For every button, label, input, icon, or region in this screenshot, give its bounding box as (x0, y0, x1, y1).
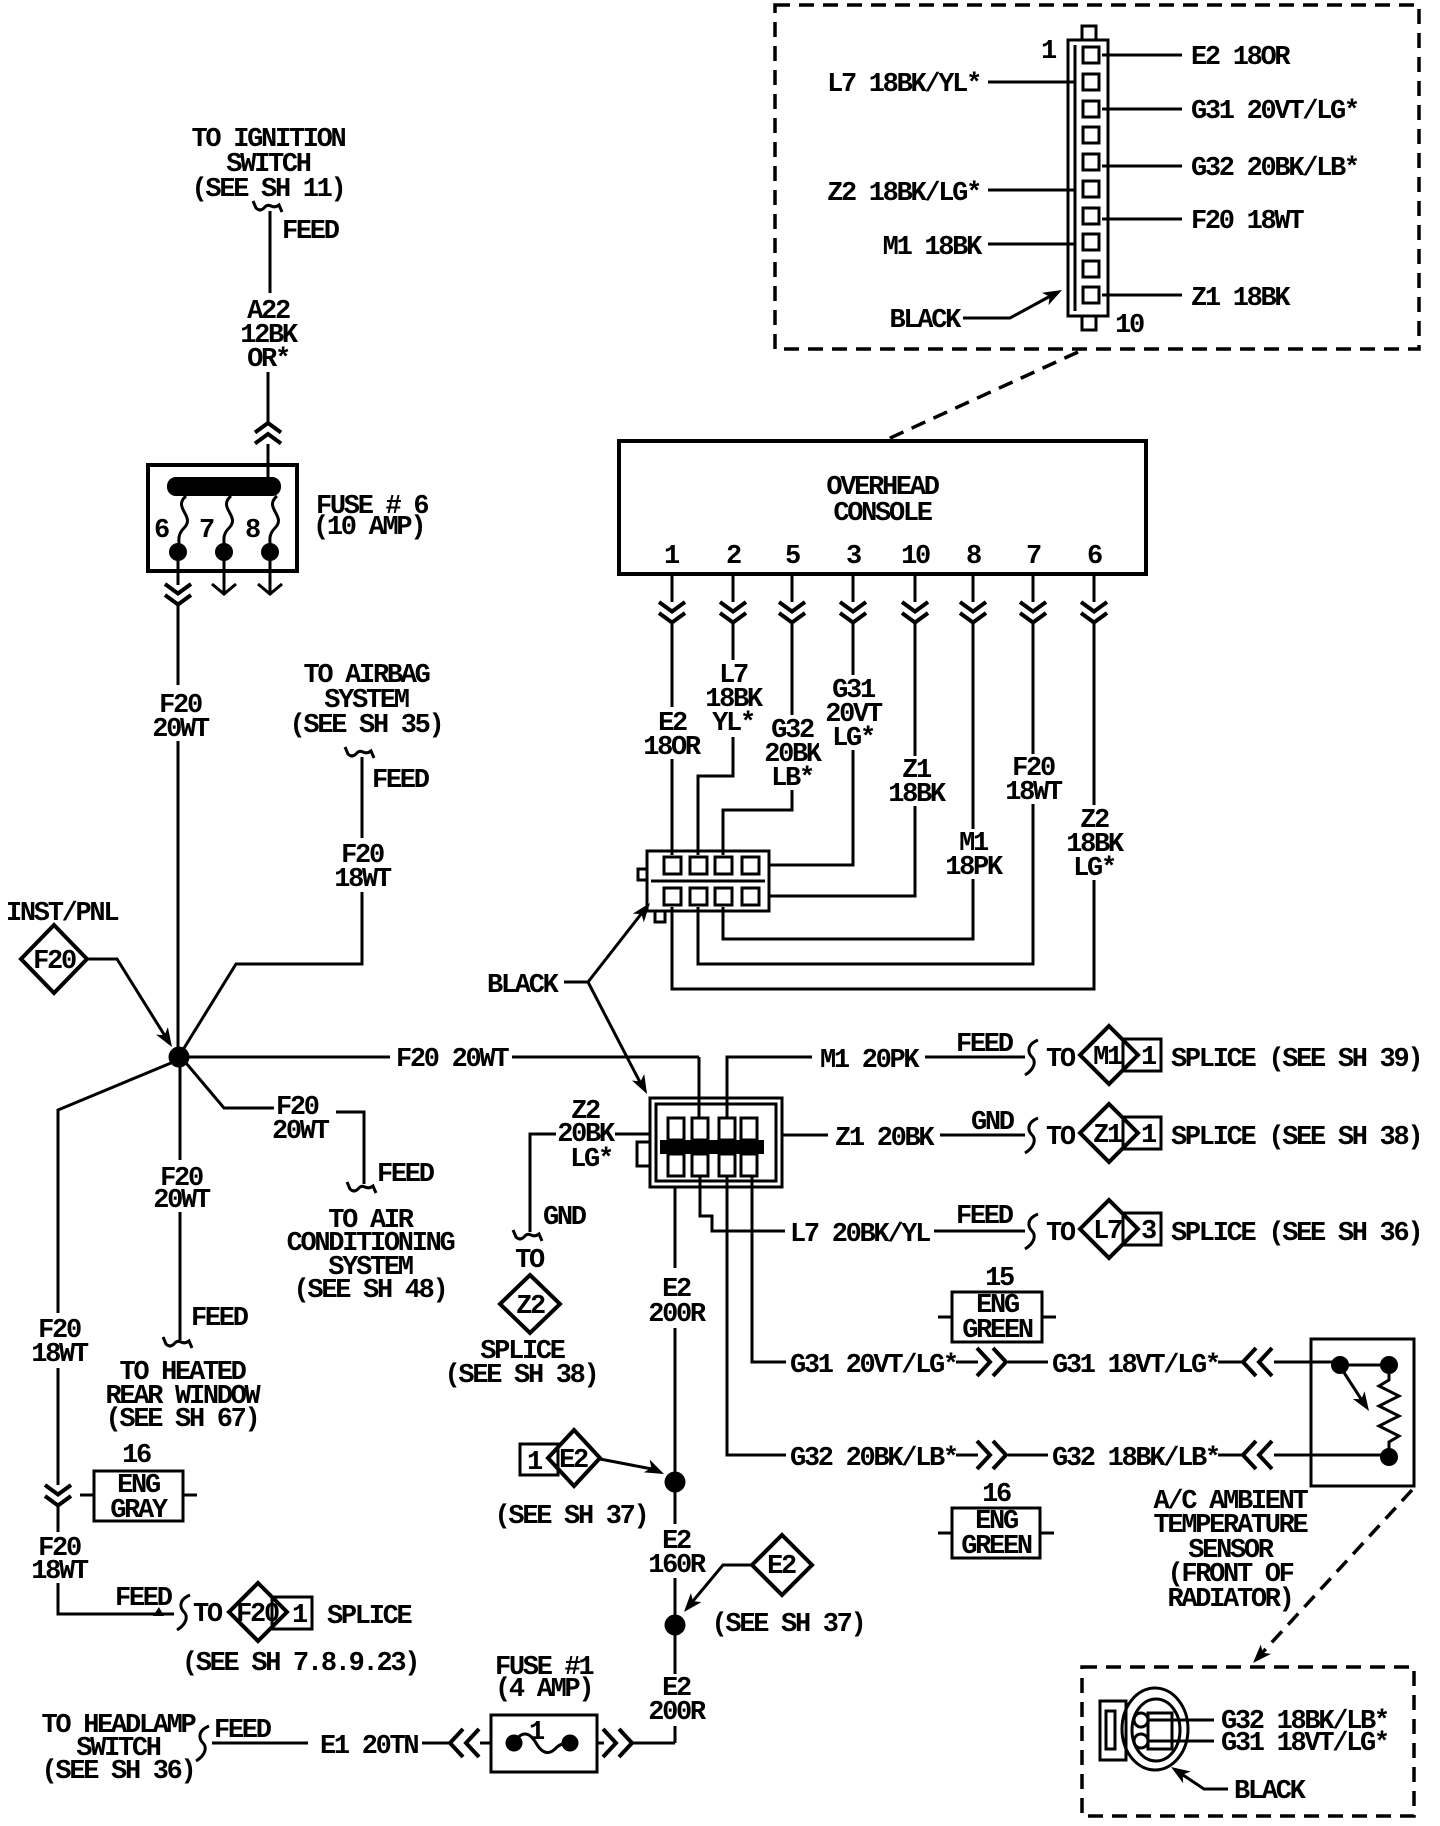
svg-text:BLACK: BLACK (889, 306, 962, 336)
wire lead Z2 18BK/LG* pin6 (988, 189, 1074, 192)
wire F20 into connector C2 pin2 (698, 1057, 701, 1118)
svg-text:TO: TO (1046, 1219, 1076, 1249)
svg-text:18PK: 18PK (945, 853, 1004, 883)
sensor connector tab slot (1106, 1711, 1115, 1749)
svg-text:(SEE SH 36): (SEE SH 36) (42, 1757, 195, 1787)
svg-text:F20 18WT: F20 18WT (1191, 207, 1304, 237)
svg-text:FEED: FEED (115, 1584, 173, 1614)
svg-text:E1 20TN: E1 20TN (320, 1732, 418, 1762)
svg-text:18WT: 18WT (31, 1340, 89, 1370)
svg-text:RADIATOR): RADIATOR) (1167, 1585, 1292, 1615)
svg-text:TO: TO (1046, 1045, 1076, 1075)
wire Z2 into connector C2 left (615, 1133, 650, 1136)
wire value label Z1 18BK (884, 756, 948, 806)
junction node dot (169, 1047, 190, 1068)
wire pointer from BLACK to both connectors (564, 909, 645, 1086)
svg-text:LG*: LG* (1073, 854, 1115, 884)
svg-text:FEED: FEED (191, 1304, 249, 1334)
svg-text:8: 8 (245, 516, 260, 546)
sensor connector left tab (1100, 1701, 1126, 1760)
wire M1 18PK from pin 8 (723, 574, 973, 939)
wire lead Z1 18BK pin10 (1102, 294, 1182, 297)
A/C ambient temperature sensor box (1311, 1339, 1414, 1486)
svg-text:Z1: Z1 (1093, 1121, 1123, 1151)
svg-text:G32 18BK/LB*: G32 18BK/LB* (1052, 1444, 1219, 1474)
wire F20 18WT airbag branch (181, 757, 362, 1053)
arrowhead to connector C1 (633, 899, 656, 923)
dashed leader from sensor to detail box (1262, 1490, 1412, 1653)
svg-text:F20: F20 (33, 947, 76, 977)
sensor connector outer ellipse (1122, 1688, 1188, 1770)
svg-text:18BK: 18BK (888, 780, 947, 810)
splice flag Z1 rect (1123, 1117, 1161, 1149)
connector chevrons right G31 (977, 1348, 1006, 1376)
wire lead L7 18BK/YL* pin2 (988, 81, 1074, 84)
connector chevrons left at fuse 1 input (450, 1729, 479, 1757)
connector chevrons on console wires (659, 602, 685, 623)
svg-text:Z1 20BK: Z1 20BK (835, 1124, 935, 1154)
svg-text:SPLICE (SEE SH 39): SPLICE (SEE SH 39) (1171, 1045, 1421, 1075)
connector C1 detail body (1068, 40, 1108, 316)
wire straight down from junction (179, 1067, 182, 1340)
wire from fuse pin 6 down (177, 561, 180, 1052)
connector C1 bottom pins (664, 888, 681, 905)
svg-text:G32 20BK/LB*: G32 20BK/LB* (790, 1444, 957, 1474)
svg-text:1: 1 (527, 1448, 543, 1478)
svg-text:LG*: LG* (570, 1145, 612, 1175)
splice symbol F20 diamond (229, 1583, 287, 1641)
wire value label Z2 18BK LG* (1060, 805, 1128, 880)
connector chevrons right at fuse 1 output (597, 1742, 604, 1745)
svg-text:(SEE SH 37): (SEE SH 37) (495, 1502, 648, 1532)
svg-text:TO: TO (515, 1246, 545, 1276)
svg-text:(SEE SH 11): (SEE SH 11) (192, 175, 345, 205)
connector C1 detail pins (1083, 47, 1099, 63)
svg-text:GREEN: GREEN (962, 1316, 1033, 1346)
wire stubs on ENG GRAY box (80, 1494, 197, 1497)
svg-text:FEED: FEED (956, 1202, 1014, 1232)
connector C2 center bar (660, 1140, 764, 1154)
svg-text:16: 16 (122, 1441, 151, 1471)
connector chevrons right G32 (977, 1441, 1006, 1469)
connector C2 inner outline (656, 1104, 776, 1181)
svg-text:10: 10 (1115, 311, 1144, 341)
svg-text:FEED: FEED (377, 1160, 435, 1190)
connector C1 detail bottom tab (1082, 316, 1096, 330)
wire end squiggle heated rear window (163, 1337, 192, 1348)
connector in-line chevrons on left branch (45, 1485, 71, 1506)
wire A22 from ignition switch to fuse 6 (269, 211, 272, 293)
svg-text:G31 20VT/LG*: G31 20VT/LG* (790, 1351, 957, 1381)
wire G32 row (727, 1176, 786, 1455)
wire Z1 20BK row (782, 1134, 828, 1137)
arrowhead to connector C2 (632, 1074, 653, 1097)
wire breakout squiggle at ignition feed (253, 201, 282, 212)
wire Z1 18BK from pin 10 (770, 574, 915, 896)
splice symbol Z1 diamond (1080, 1104, 1138, 1162)
svg-text:6: 6 (1087, 542, 1102, 572)
bracket headlamp (196, 1726, 209, 1761)
fuse F6 bus bar (167, 477, 281, 496)
svg-text:BLACK: BLACK (1234, 1777, 1307, 1807)
detail view dashed box (sensor connector) (1082, 1667, 1414, 1816)
wire G31 20VT LG* from pin 3 (770, 574, 853, 865)
svg-text:M1 20PK: M1 20PK (820, 1046, 920, 1076)
node TO F20 splice (153, 1607, 164, 1616)
svg-text:200R: 200R (648, 1300, 707, 1330)
svg-text:(SEE SH 48): (SEE SH 48) (294, 1276, 447, 1306)
svg-text:TO: TO (193, 1600, 223, 1630)
svg-text:1: 1 (292, 1601, 308, 1631)
terminal dot pin 8 (261, 543, 279, 561)
svg-text:GND: GND (971, 1108, 1015, 1138)
svg-text:7: 7 (199, 516, 214, 546)
fuse F1 terminal dots (506, 1735, 523, 1752)
connector C1 middle line (651, 880, 765, 883)
wire lead G31 20VT/LG* pin3 (1102, 108, 1182, 111)
svg-text:10: 10 (901, 542, 930, 572)
connector C1 detail top tab (1082, 26, 1096, 40)
bracket F20 splice (177, 1595, 190, 1630)
terminal dot pin 6 (169, 543, 187, 561)
wire lead E2 18OR pin1 (1102, 54, 1182, 57)
sensor connector pin G31 (1134, 1734, 1148, 1748)
connector C1 detail inner edge (1074, 45, 1077, 311)
wire value label E2 160R (644, 1524, 708, 1578)
thermistor arrow (1343, 1371, 1363, 1402)
svg-text:BLACK: BLACK (487, 971, 560, 1001)
splice symbol M1 diamond (1080, 1026, 1138, 1084)
splice symbol E2 diamond (lower) (752, 1535, 812, 1595)
arrowhead on INST/PNL wire (156, 1027, 178, 1051)
svg-text:E2: E2 (559, 1446, 588, 1476)
sensor terminal dot top-left (1331, 1356, 1349, 1374)
connector C2 top pins (668, 1118, 684, 1140)
svg-text:FEED: FEED (956, 1030, 1014, 1060)
detail view dashed box (console connector) (775, 5, 1419, 349)
wire lead G32 18BK/LB* (1148, 1719, 1214, 1722)
wire value label G31 20VT LG* (819, 675, 887, 750)
wire E2 18OR from pin 1 (671, 574, 674, 855)
svg-text:GND: GND (543, 1203, 587, 1233)
splice node dot E2 upper (665, 1472, 686, 1493)
svg-text:GREEN: GREEN (961, 1532, 1032, 1562)
sensor connector pin cavity (1148, 1713, 1172, 1749)
svg-text:M1: M1 (1093, 1043, 1123, 1073)
wire label F20 20WT on horizontal run (390, 1042, 512, 1072)
svg-text:GRAY: GRAY (110, 1496, 169, 1526)
svg-text:LG*: LG* (832, 724, 874, 754)
fuse element 8 (270, 496, 279, 548)
svg-text:15: 15 (985, 1264, 1014, 1294)
wire lead M1 18BK pin8 (988, 243, 1074, 246)
splice flag L7 rect (1123, 1213, 1161, 1245)
sensor connector pin G32 (1134, 1713, 1148, 1727)
wire value label G32 20BK LB* (758, 715, 826, 790)
wire inside sensor from G31 dot (1311, 1365, 1389, 1455)
svg-text:CONSOLE: CONSOLE (833, 499, 932, 529)
svg-text:FEED: FEED (372, 766, 430, 796)
wire value label E2 200R (upper) (644, 1268, 708, 1328)
svg-text:G31 18VT/LG*: G31 18VT/LG* (1221, 1729, 1388, 1759)
svg-text:5: 5 (785, 542, 800, 572)
svg-text:3: 3 (846, 542, 861, 572)
connector C2 bottom pins (668, 1154, 684, 1176)
svg-text:8: 8 (966, 542, 981, 572)
svg-text:Z1 18BK: Z1 18BK (1191, 284, 1291, 314)
wire F20 18WT from pin 7 (698, 574, 1033, 964)
svg-text:2: 2 (726, 542, 741, 572)
svg-text:20WT: 20WT (153, 1186, 211, 1216)
svg-text:7: 7 (1026, 542, 1041, 572)
svg-text:TO: TO (1046, 1123, 1076, 1153)
fuse F6 box (148, 465, 297, 571)
wire F20 20WT to the right of junction (189, 1056, 699, 1059)
svg-text:18WT: 18WT (31, 1557, 89, 1587)
bracket L7 (1025, 1214, 1038, 1249)
svg-text:Z2: Z2 (516, 1292, 545, 1322)
wire L7 18BK YL* from pin 2 (698, 574, 733, 855)
svg-text:E2 18OR: E2 18OR (1191, 43, 1291, 73)
sensor terminal dot top-right (1380, 1356, 1398, 1374)
wire A22 lower segment (267, 372, 270, 479)
svg-text:(SEE SH 38): (SEE SH 38) (445, 1361, 598, 1391)
wire E1 20TN (212, 1742, 308, 1745)
wire pointer from E2 flag to dot (600, 1459, 652, 1469)
svg-text:L7 20BK/YL: L7 20BK/YL (790, 1220, 930, 1250)
splice symbol Z2 diamond (500, 1275, 560, 1333)
splice symbol E2 diamond (upper) (548, 1430, 600, 1486)
wire E2 vertical chain (674, 1187, 677, 1743)
wire value label L7 18BK YL* (700, 660, 766, 737)
wire from INST/PNL diamond to junction (87, 959, 170, 1044)
wire branch down-left F20 18WT (58, 1063, 174, 1614)
wire value label F20 18WT (1001, 754, 1065, 804)
svg-text:18OR: 18OR (643, 733, 702, 763)
connector C1 top pins (664, 857, 681, 874)
wire G32 20BK LB* from pin 5 (723, 574, 792, 855)
svg-text:18WT: 18WT (334, 865, 392, 895)
svg-text:INST/PNL: INST/PNL (6, 899, 118, 929)
svg-text:3: 3 (1141, 1217, 1156, 1247)
svg-text:L7 18BK/YL*: L7 18BK/YL* (827, 70, 980, 100)
wire lead G31 18VT/LG* (1148, 1740, 1214, 1743)
svg-text:Z2 18BK/LG*: Z2 18BK/LG* (827, 179, 980, 209)
wire lead G32 20BK/LB* pin5 (1102, 165, 1182, 168)
svg-text:1: 1 (664, 542, 680, 572)
splice flag E2 rect with 1 (520, 1444, 558, 1475)
svg-text:SPLICE (SEE SH 38): SPLICE (SEE SH 38) (1171, 1123, 1421, 1153)
svg-text:(10 AMP): (10 AMP) (313, 513, 424, 543)
wire lead F20 18WT pin7 (1102, 218, 1182, 221)
wire breakout squiggle airbag feed (345, 747, 374, 758)
thermistor resistor zigzag (1379, 1374, 1399, 1450)
bracket M1 (1025, 1040, 1038, 1075)
svg-text:L7: L7 (1093, 1217, 1122, 1247)
svg-text:G31 20VT/LG*: G31 20VT/LG* (1191, 97, 1358, 127)
connector in-line (up chevrons) on A22 (255, 423, 281, 444)
connector C2 left tab (637, 1142, 650, 1166)
wire value label M1 18PK (941, 829, 1005, 879)
svg-text:6: 6 (154, 516, 169, 546)
svg-text:1: 1 (529, 1718, 545, 1748)
wire L7 20BK/YL row from connector C2 (700, 1176, 785, 1231)
sensor terminal dot bottom (1380, 1448, 1398, 1466)
connector C1 bottom-left leg (655, 911, 665, 922)
svg-text:20WT: 20WT (272, 1117, 330, 1147)
wire pointer from lower E2 diamond to dot (688, 1565, 752, 1607)
svg-text:LB*: LB* (771, 764, 813, 794)
connector in-line (down chevrons) below fuse pin 6 (165, 584, 191, 605)
splice symbol F20 INST/PNL diamond (21, 925, 87, 993)
connector C1 left tab (638, 869, 647, 880)
svg-text:OR*: OR* (247, 345, 289, 375)
svg-text:20WT: 20WT (152, 715, 210, 745)
wire G31 row (752, 1176, 786, 1362)
wire end squiggle A/C (347, 1182, 376, 1193)
connector chevrons left G31 (1243, 1348, 1272, 1376)
svg-text:G32 20BK/LB*: G32 20BK/LB* (1191, 154, 1358, 184)
dashed leader from detail box to console (888, 352, 1078, 439)
svg-text:F20 20WT: F20 20WT (396, 1045, 509, 1075)
wire value label E2 200R (lower) (644, 1674, 708, 1726)
wire label F20 20WT on fuse output (148, 685, 210, 741)
svg-text:(SEE SH 67): (SEE SH 67) (106, 1405, 259, 1435)
svg-text:18WT: 18WT (1005, 778, 1063, 808)
connector chevrons left G32 (1243, 1441, 1272, 1469)
svg-text:16: 16 (982, 1480, 1011, 1510)
fuse element 7 (224, 496, 233, 548)
terminal dot pin 7 (215, 543, 233, 561)
svg-text:(SEE SH 7.8.9.23): (SEE SH 7.8.9.23) (182, 1649, 418, 1679)
connector C2 outer body (650, 1098, 782, 1187)
splice symbol L7 diamond (1080, 1200, 1138, 1258)
wire stub from fuse pin 8 with open arrow (258, 561, 282, 594)
wire stub from fuse pin 7 with open arrow (212, 561, 236, 594)
wire Z2 branch down to splice (530, 1134, 556, 1232)
bracket Z1 (1025, 1118, 1038, 1153)
wire value label E2 18OR (640, 707, 706, 759)
svg-text:160R: 160R (648, 1551, 707, 1581)
sensor connector inner ellipse (1132, 1699, 1180, 1761)
splice node dot E2 lower (665, 1615, 686, 1636)
svg-text:G31 18VT/LG*: G31 18VT/LG* (1052, 1351, 1219, 1381)
splice flag M1 rect (1123, 1039, 1161, 1071)
fuse F1 box (491, 1715, 597, 1772)
svg-text:1: 1 (1141, 1043, 1157, 1073)
wire pointer BLACK to connector (963, 293, 1056, 318)
fuse F1 element (514, 1734, 570, 1753)
svg-text:1: 1 (1141, 1121, 1157, 1151)
overhead console box (619, 441, 1146, 574)
svg-text:(SEE SH 37): (SEE SH 37) (712, 1610, 865, 1640)
wire Z2 18BK LG* from pin 6 (672, 574, 1094, 989)
wire A/C feed drop (336, 1112, 364, 1184)
svg-text:(4 AMP): (4 AMP) (495, 1675, 592, 1705)
fuse element 6 (179, 496, 188, 548)
wire M1 out of connector C2 pin3 (727, 1057, 812, 1118)
svg-text:200R: 200R (648, 1698, 707, 1728)
wire pointer BLACK to connector shell (1177, 1771, 1228, 1789)
connector C1 body (console 10-way in-line) (647, 851, 769, 911)
svg-text:M1 18BK: M1 18BK (883, 233, 983, 263)
wire end squiggle Z2 GND (513, 1230, 542, 1241)
svg-text:1: 1 (1041, 37, 1057, 67)
splice flag F20 rect (272, 1597, 312, 1629)
svg-text:SPLICE (SEE SH 36): SPLICE (SEE SH 36) (1171, 1219, 1421, 1249)
svg-text:F20: F20 (236, 1600, 279, 1630)
svg-text:SPLICE: SPLICE (327, 1602, 413, 1632)
wire branch to air conditioning (186, 1063, 274, 1108)
svg-text:E2: E2 (767, 1552, 796, 1582)
svg-text:YL*: YL* (712, 709, 754, 739)
svg-text:FEED: FEED (282, 217, 340, 247)
svg-text:(SEE SH 35): (SEE SH 35) (290, 711, 443, 741)
